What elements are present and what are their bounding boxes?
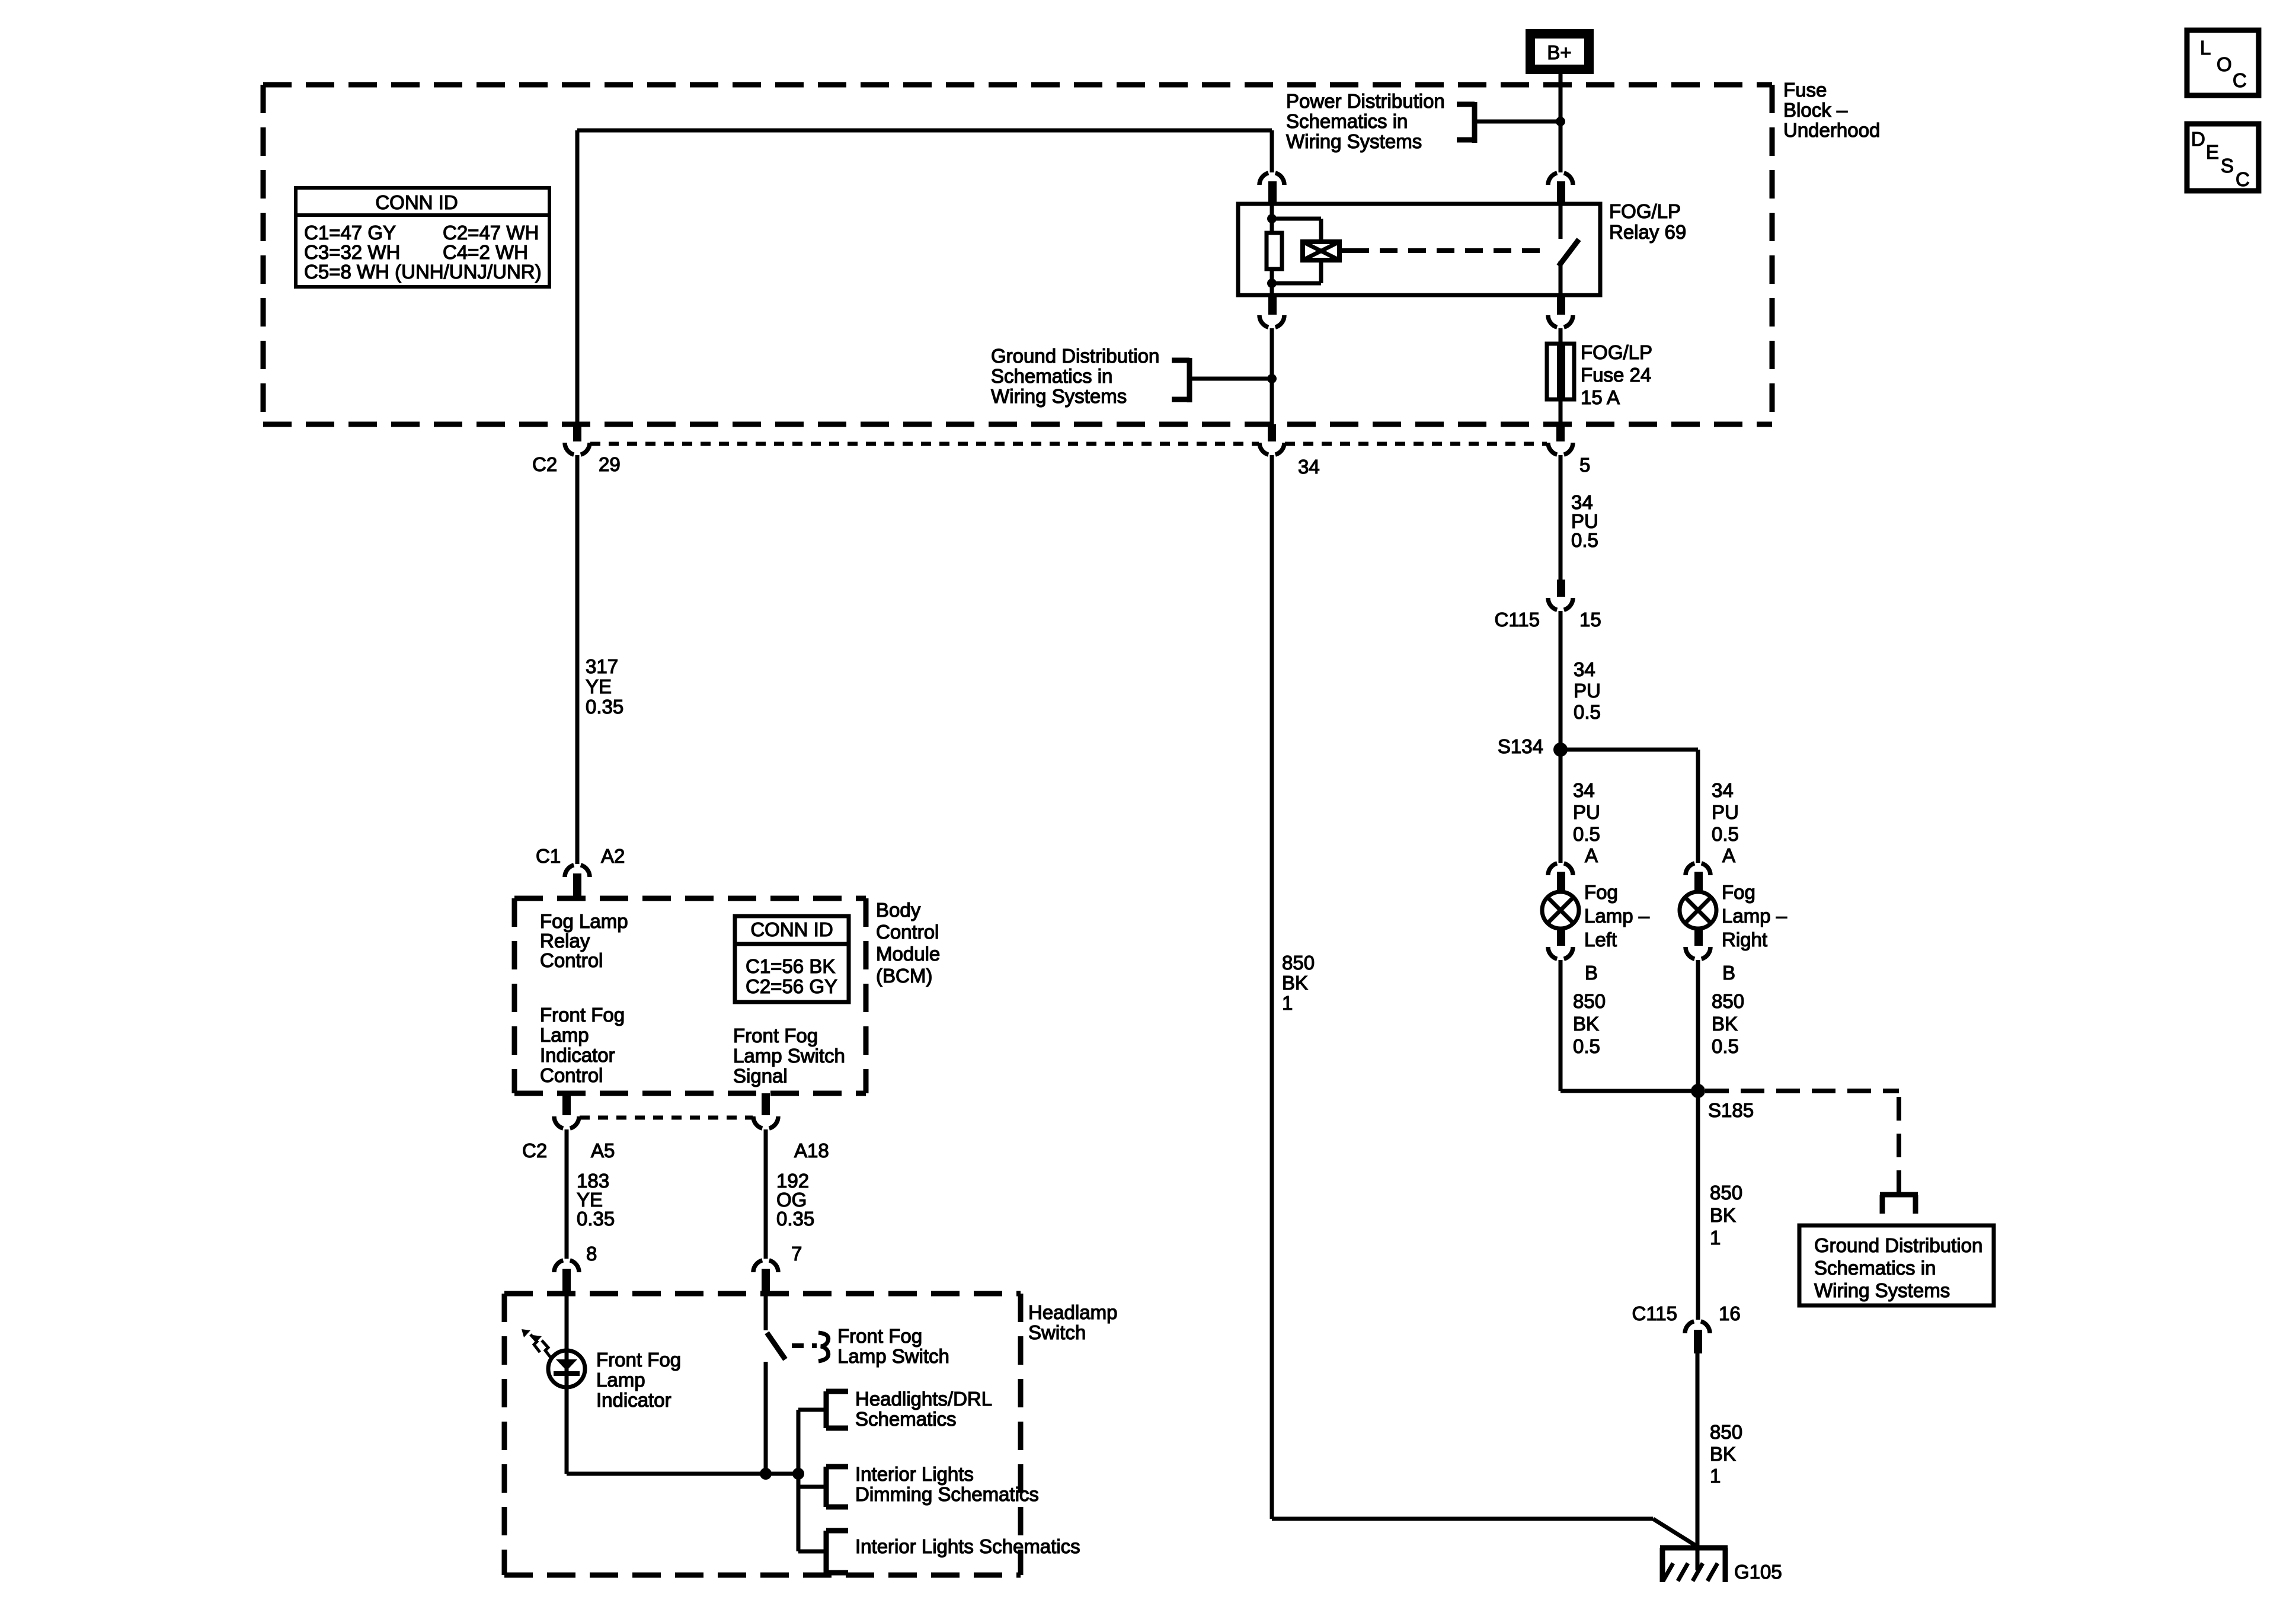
svg-text:Front Fog: Front Fog (596, 1349, 681, 1371)
svg-text:Schematics in: Schematics in (1814, 1257, 1936, 1279)
svg-text:Body: Body (876, 899, 921, 921)
svg-text:Indicator: Indicator (596, 1389, 671, 1411)
svg-text:C2: C2 (532, 453, 557, 475)
svg-text:(BCM): (BCM) (876, 965, 932, 987)
svg-text:Indicator: Indicator (540, 1044, 615, 1066)
svg-text:B+: B+ (1547, 41, 1571, 63)
svg-text:Lamp –: Lamp – (1584, 905, 1650, 927)
svg-text:0.5: 0.5 (1571, 529, 1598, 551)
svg-text:34: 34 (1712, 779, 1734, 801)
svg-text:850: 850 (1573, 990, 1606, 1012)
svg-text:Schematics in: Schematics in (991, 365, 1112, 387)
svg-text:C2: C2 (522, 1140, 547, 1161)
svg-text:FOG/LP: FOG/LP (1609, 200, 1681, 222)
svg-text:D: D (2191, 128, 2205, 150)
svg-text:BK: BK (1573, 1013, 1599, 1035)
svg-text:850: 850 (1282, 952, 1315, 974)
svg-text:O: O (2217, 53, 2232, 75)
svg-text:Fuse: Fuse (1783, 79, 1827, 101)
svg-text:A5: A5 (591, 1140, 615, 1161)
svg-text:BK: BK (1710, 1204, 1736, 1226)
svg-text:Lamp: Lamp (596, 1369, 645, 1391)
svg-text:850: 850 (1710, 1421, 1742, 1443)
svg-text:Schematics: Schematics (855, 1408, 957, 1430)
svg-text:Lamp Switch: Lamp Switch (733, 1045, 845, 1067)
svg-text:C115: C115 (1495, 609, 1540, 631)
svg-text:Headlamp: Headlamp (1028, 1301, 1117, 1323)
svg-text:34: 34 (1298, 456, 1320, 478)
svg-text:S134: S134 (1498, 735, 1543, 757)
svg-text:Switch: Switch (1028, 1321, 1086, 1343)
svg-text:C3=32 WH: C3=32 WH (304, 241, 400, 263)
svg-text:E: E (2206, 141, 2219, 163)
svg-text:0.35: 0.35 (586, 696, 623, 718)
svg-text:317: 317 (586, 655, 618, 677)
svg-text:B: B (1722, 962, 1735, 984)
svg-text:Front Fog: Front Fog (540, 1004, 625, 1026)
svg-text:Ground Distribution: Ground Distribution (1814, 1234, 1982, 1256)
svg-text:PU: PU (1573, 801, 1600, 823)
svg-text:A: A (1585, 844, 1598, 866)
svg-text:Dimming Schematics: Dimming Schematics (855, 1483, 1039, 1505)
svg-text:15: 15 (1579, 609, 1601, 631)
svg-text:850: 850 (1710, 1182, 1742, 1204)
svg-text:YE: YE (586, 676, 612, 697)
svg-text:CONN ID: CONN ID (750, 918, 833, 940)
svg-text:16: 16 (1719, 1302, 1741, 1324)
svg-text:Right: Right (1722, 929, 1767, 950)
svg-text:C2=47 WH: C2=47 WH (443, 222, 539, 244)
svg-text:G105: G105 (1734, 1561, 1782, 1583)
svg-text:C5=8 WH (UNH/UNJ/UNR): C5=8 WH (UNH/UNJ/UNR) (304, 261, 542, 283)
svg-text:Ground Distribution: Ground Distribution (991, 345, 1159, 367)
svg-text:Interior Lights: Interior Lights (855, 1463, 974, 1485)
svg-text:Lamp –: Lamp – (1722, 905, 1787, 927)
svg-text:Wiring Systems: Wiring Systems (991, 385, 1127, 407)
svg-text:BK: BK (1712, 1013, 1738, 1035)
svg-text:CONN ID: CONN ID (375, 191, 458, 213)
svg-text:5: 5 (1579, 454, 1590, 476)
svg-text:Control: Control (876, 921, 939, 943)
svg-text:PU: PU (1574, 680, 1601, 702)
svg-text:0.5: 0.5 (1574, 701, 1601, 723)
svg-text:S185: S185 (1708, 1099, 1754, 1121)
svg-text:34: 34 (1574, 658, 1595, 680)
svg-text:Headlights/DRL: Headlights/DRL (855, 1388, 992, 1410)
svg-text:Relay: Relay (540, 930, 590, 952)
svg-text:PU: PU (1712, 801, 1739, 823)
svg-text:Block –: Block – (1783, 99, 1848, 121)
svg-text:Schematics in: Schematics in (1286, 110, 1408, 132)
svg-text:C1=47 GY: C1=47 GY (304, 222, 396, 244)
svg-text:Fog: Fog (1584, 881, 1618, 903)
svg-text:Underhood: Underhood (1783, 119, 1880, 141)
svg-text:L: L (2200, 37, 2211, 59)
svg-text:0.5: 0.5 (1712, 1035, 1739, 1057)
svg-text:A18: A18 (794, 1140, 829, 1161)
svg-text:Fog: Fog (1722, 881, 1755, 903)
svg-text:Control: Control (540, 1064, 603, 1086)
svg-text:C2=56 GY: C2=56 GY (746, 975, 837, 997)
svg-text:Front Fog: Front Fog (733, 1025, 818, 1046)
svg-text:C: C (2233, 69, 2247, 91)
svg-text:0.35: 0.35 (776, 1208, 814, 1230)
svg-text:A2: A2 (601, 845, 625, 867)
svg-text:850: 850 (1712, 990, 1744, 1012)
svg-text:Left: Left (1584, 929, 1617, 950)
svg-text:Control: Control (540, 949, 603, 971)
svg-text:0.5: 0.5 (1573, 1035, 1600, 1057)
svg-text:Lamp Switch: Lamp Switch (837, 1345, 949, 1367)
svg-text:Power Distribution: Power Distribution (1286, 90, 1445, 112)
svg-text:Front Fog: Front Fog (837, 1325, 922, 1347)
svg-text:C4=2 WH: C4=2 WH (443, 241, 528, 263)
svg-text:S: S (2221, 155, 2234, 177)
svg-text:0.35: 0.35 (577, 1208, 615, 1230)
svg-text:7: 7 (791, 1243, 802, 1265)
svg-text:C1: C1 (536, 845, 561, 867)
svg-text:1: 1 (1282, 992, 1293, 1014)
svg-text:0.5: 0.5 (1573, 823, 1600, 845)
svg-text:1: 1 (1710, 1465, 1721, 1487)
svg-text:0.5: 0.5 (1712, 823, 1739, 845)
svg-text:BK: BK (1282, 972, 1308, 994)
svg-text:34: 34 (1573, 779, 1595, 801)
svg-text:Fuse 24: Fuse 24 (1581, 364, 1651, 386)
svg-text:Signal: Signal (733, 1065, 788, 1087)
svg-text:Relay 69: Relay 69 (1609, 221, 1686, 243)
svg-text:B: B (1585, 962, 1598, 984)
svg-text:Wiring Systems: Wiring Systems (1814, 1279, 1950, 1301)
svg-text:FOG/LP: FOG/LP (1581, 341, 1652, 363)
svg-text:15 A: 15 A (1581, 386, 1620, 408)
svg-text:Wiring Systems: Wiring Systems (1286, 130, 1422, 152)
svg-text:Lamp: Lamp (540, 1024, 589, 1046)
svg-text:C1=56 BK: C1=56 BK (746, 955, 835, 977)
svg-text:A: A (1722, 844, 1735, 866)
svg-text:29: 29 (599, 453, 621, 475)
svg-text:C: C (2236, 168, 2250, 190)
svg-text:Interior Lights Schematics: Interior Lights Schematics (855, 1535, 1080, 1557)
svg-text:8: 8 (586, 1243, 597, 1265)
svg-text:Fog Lamp: Fog Lamp (540, 910, 628, 932)
svg-text:1: 1 (1710, 1227, 1721, 1249)
svg-text:Module: Module (876, 943, 940, 965)
svg-text:C115: C115 (1632, 1302, 1677, 1324)
svg-text:BK: BK (1710, 1443, 1736, 1465)
